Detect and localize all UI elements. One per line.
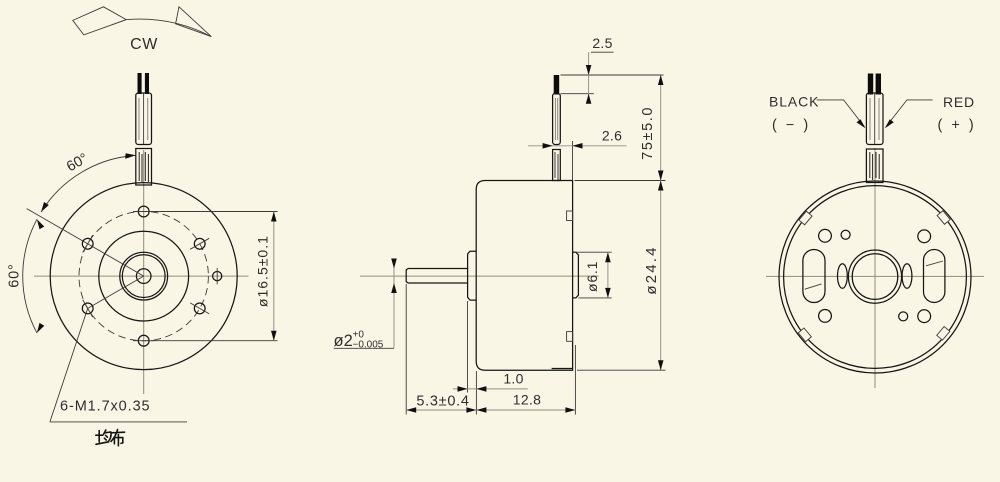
arc lower arrow top	[37, 219, 44, 229]
dia 16.5 arrow down	[271, 331, 277, 341]
dim 6.1 line	[607, 252, 609, 298]
svg-text:2.5: 2.5	[592, 35, 612, 51]
shaft hole circle	[136, 269, 151, 284]
crimp tab lower-right	[937, 326, 950, 340]
dim 2.6 arrow left	[573, 143, 583, 149]
middle view black wire	[554, 75, 560, 95]
svg-text:BLACK: BLACK	[769, 94, 819, 110]
screw hole upper-left	[82, 238, 93, 249]
svg-text:ø6.1: ø6.1	[584, 261, 600, 292]
shaft	[406, 269, 467, 284]
left view black wire right	[145, 73, 149, 94]
bottom hole tick	[133, 340, 155, 342]
lower-right hole slash	[190, 303, 209, 314]
right view black wire left	[868, 74, 873, 95]
dim 2.5 wire tip extension	[561, 74, 664, 76]
Chinese char jun (evenly)	[96, 430, 111, 444]
CW arrow tail flag	[73, 7, 127, 35]
svg-text:6-M1.7x0.35: 6-M1.7x0.35	[60, 399, 151, 415]
dim 2.6 extension (body edge up)	[572, 141, 574, 181]
dim 75 arrow up	[658, 75, 664, 85]
left view black wire left	[138, 73, 142, 94]
small hole vertical tick	[216, 268, 218, 284]
small hole right	[213, 272, 222, 281]
CW arrow arc	[126, 19, 211, 37]
dim 1.0 arrow right	[458, 386, 468, 392]
BLACK leader	[817, 100, 865, 127]
dim 5.3 arrow left	[406, 407, 416, 413]
leader line from label through 210 deg hole to center	[50, 276, 144, 422]
front bearing boss	[468, 251, 477, 300]
back inner circle	[784, 186, 967, 369]
dim 6.1 top extension	[574, 251, 612, 253]
screw hole upper-right	[194, 238, 205, 249]
dia 16.5 arrow up	[271, 212, 277, 222]
label underline	[50, 421, 187, 423]
dim 1.0 line	[453, 388, 528, 390]
hole bottom-right small	[899, 312, 908, 321]
arc upper arrow right	[125, 153, 136, 159]
svg-text:CW: CW	[130, 36, 158, 53]
dim 6.1 arrow up	[605, 252, 611, 262]
dim 6.1 bottom extension	[578, 297, 611, 299]
svg-text:12.8: 12.8	[513, 391, 541, 407]
center bearing outer circle	[848, 250, 901, 303]
60 deg dimension arc upper	[41, 155, 135, 212]
dia 16.5 top extension line	[151, 211, 278, 213]
motor face middle circle	[99, 231, 189, 321]
dim 5.3 arrow right	[466, 407, 476, 413]
vent slot left	[803, 250, 825, 303]
vent slot right brush line	[926, 261, 943, 266]
dim 12.8 arrow left	[476, 407, 486, 413]
svg-text:1.0: 1.0	[503, 371, 523, 387]
arc upper arrow left	[41, 202, 49, 212]
vent slot right	[924, 250, 945, 303]
center boss outer ring	[120, 252, 168, 300]
right view wire sleeve lower	[866, 149, 883, 183]
svg-text:ø16.5±0.1: ø16.5±0.1	[255, 235, 271, 307]
hole bottom-right large	[918, 310, 931, 323]
dim 75 and 24.4 shared dimension line	[660, 75, 662, 370]
center boss inner ring	[122, 255, 165, 298]
dim 2.5 arrow down	[586, 65, 592, 75]
terminal tab lower	[567, 332, 573, 342]
svg-text:ø24.4: ø24.4	[643, 245, 660, 294]
hole top-left small	[841, 230, 850, 239]
60 deg dimension arc lower	[23, 219, 37, 333]
CW arrowhead	[176, 7, 212, 37]
dim 2.6 arrow right	[543, 143, 553, 149]
dim 2.5 leader vertical	[588, 52, 590, 103]
svg-text:−0.005: −0.005	[353, 340, 384, 351]
hole top-right large	[918, 230, 931, 243]
radial line at 150 deg	[27, 209, 144, 277]
oval left of center	[838, 264, 848, 289]
motor body side outline	[476, 181, 572, 371]
oval right of center	[902, 264, 912, 289]
dim 75 arrow down	[658, 171, 664, 181]
middle view wire sleeve upper	[553, 94, 561, 145]
screw hole lower-right	[194, 303, 205, 314]
right view vertical centerline	[874, 148, 876, 388]
Chinese char bu (distributed)	[111, 430, 125, 446]
dim dia2 arrow up	[391, 283, 397, 293]
rear boss	[573, 252, 579, 298]
bolt circle (dashed)	[79, 211, 208, 340]
crimp tab lower-left	[798, 328, 811, 342]
dim dia2 leader vertical	[393, 259, 395, 348]
arc lower arrow bottom	[37, 323, 44, 333]
dim 2.5 sleeve top extension	[561, 93, 594, 95]
dim 2.6 line	[528, 145, 626, 147]
upper-left hole tick	[83, 235, 93, 252]
RED leader	[886, 100, 933, 127]
right view black wire right	[876, 74, 881, 95]
dim dia2 arrow down	[391, 259, 397, 269]
svg-text:( − ): ( − )	[772, 118, 811, 134]
dim body face extension	[475, 371, 477, 415]
dim 12.8 arrow right	[565, 407, 575, 413]
screw hole bottom	[138, 335, 149, 346]
svg-text:2.6: 2.6	[602, 128, 622, 144]
dim 12.8 right extension	[574, 345, 576, 415]
dim 5.3 and 12.8 line	[406, 409, 575, 411]
RED leader arrowhead	[885, 119, 894, 128]
dim dia2 underline	[334, 347, 394, 349]
middle view horizontal centerline	[360, 275, 599, 277]
svg-text:RED: RED	[943, 94, 975, 110]
dim 1.0 arrow left	[476, 386, 486, 392]
lower-left hole tick	[83, 300, 93, 317]
end cap bottom lip	[552, 368, 573, 370]
left view wire sleeve upper	[136, 93, 152, 145]
dim 1.0 boss face extension	[467, 301, 469, 393]
svg-text:60°: 60°	[7, 263, 23, 287]
dim 6.1 arrow down	[605, 288, 611, 298]
dim 2.5 underline	[591, 51, 614, 53]
dia 16.5 dimension line	[273, 212, 275, 341]
dim 75 body top extension	[575, 180, 666, 182]
dim 2.5 arrow up	[586, 94, 592, 104]
top hole tick	[133, 211, 155, 213]
BLACK leader arrowhead	[857, 119, 866, 128]
right view horizontal centerline	[766, 275, 984, 277]
dim 24.4 arrow up	[658, 181, 664, 191]
upper-right hole slash	[190, 238, 209, 249]
crimp tab upper-left	[799, 211, 812, 225]
terminal tab upper	[567, 211, 573, 221]
hole top-left large	[819, 229, 832, 242]
vent slot left brush line	[805, 284, 822, 289]
screw hole lower-left	[82, 303, 93, 314]
dia 16.5 bottom extension line	[151, 340, 278, 342]
left view horizontal centerline	[34, 275, 249, 277]
svg-text:( + ): ( + )	[938, 118, 977, 134]
middle view wire sleeve lower	[553, 150, 561, 181]
screw hole top	[138, 206, 149, 217]
svg-text:75±5.0: 75±5.0	[640, 106, 656, 160]
back outer circle	[779, 181, 971, 373]
dim 24.4 bottom extension	[577, 369, 666, 371]
dim 5.3 shaft end extension	[405, 284, 407, 415]
crimp tab upper-right	[937, 211, 950, 225]
svg-text:ø2: ø2	[334, 332, 353, 350]
right view wire sleeve upper	[866, 93, 883, 145]
center bearing inner circle	[852, 254, 898, 300]
motor outer circle	[50, 183, 237, 370]
svg-text:5.3±0.4: 5.3±0.4	[416, 394, 469, 410]
left view vertical centerline	[143, 150, 145, 394]
hole bottom-left large	[819, 310, 832, 323]
left view wire sleeve lower	[136, 149, 152, 186]
dim 24.4 arrow down	[658, 360, 664, 370]
